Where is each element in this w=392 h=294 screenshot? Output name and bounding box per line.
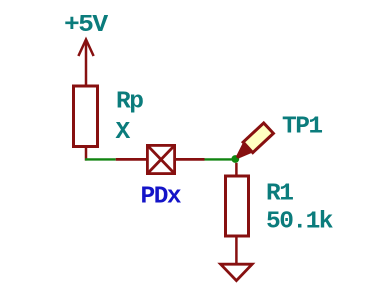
resistor Rp (74, 86, 98, 161)
photodiode PDx (crossed square with pins) (116, 145, 205, 173)
resistor R1 (226, 163, 249, 264)
wire (Rp bottom to PDx left pin) (85, 158, 116, 160)
wire (PDx right pin to junction) (205, 158, 233, 160)
test point TP1 (probe) (232, 123, 273, 163)
svg-text:X: X (116, 119, 131, 146)
svg-text:+5V: +5V (64, 12, 108, 39)
svg-text:50.1k: 50.1k (266, 209, 334, 236)
svg-text:PDx: PDx (141, 183, 182, 210)
junction (node) (231, 155, 239, 163)
svg-text:TP1: TP1 (282, 114, 322, 141)
ground (221, 264, 253, 280)
svg-text:R1: R1 (266, 180, 293, 207)
svg-text:Rp: Rp (116, 89, 143, 116)
power symbol +5V (arrow) (78, 40, 93, 86)
